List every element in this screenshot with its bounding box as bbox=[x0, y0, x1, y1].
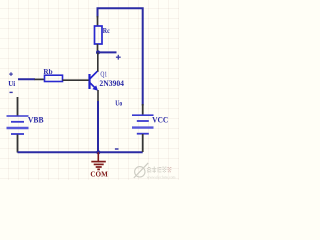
svg-text:COM: COM bbox=[90, 170, 107, 179]
resistor Rc bbox=[95, 26, 103, 44]
label: + of Ui source bbox=[9, 72, 13, 76]
wire: bottom rail bbox=[18, 151, 143, 153]
pin Rc bottom lead bbox=[97, 44, 99, 53]
watermark CJK text (simulated glyph blocks) bbox=[147, 167, 167, 173]
battery VBB bbox=[7, 116, 29, 134]
label: - polarity of Uo bbox=[115, 148, 119, 150]
pin: Rb right lead / wire to Q1 base bbox=[63, 79, 89, 81]
node: emitter/ground junction dot bbox=[96, 150, 100, 154]
pin: Rb left lead bbox=[35, 78, 46, 80]
watermark logo circle bbox=[134, 163, 148, 178]
ground COM power symbol bbox=[91, 152, 106, 169]
pin: VCC - bottom lead bbox=[142, 134, 144, 152]
battery VCC bbox=[132, 115, 154, 134]
pin: VBB + top lead bbox=[17, 97, 19, 116]
svg-text:VCC: VCC bbox=[152, 115, 168, 125]
svg-text:Uo: Uo bbox=[115, 99, 122, 108]
svg-text:Rc: Rc bbox=[103, 27, 110, 35]
node: collector junction dot bbox=[96, 50, 100, 54]
pin: VCC + top lead bbox=[142, 104, 144, 115]
svg-text:Rb: Rb bbox=[43, 68, 52, 76]
pin Rc top lead bbox=[97, 16, 99, 26]
pin: VBB - bottom lead bbox=[17, 135, 19, 153]
pin: Q1 emitter lead bbox=[97, 90, 99, 102]
label: + polarity of Uo bbox=[116, 55, 121, 60]
svg-text:www.elecfans.com: www.elecfans.com bbox=[147, 176, 176, 180]
transistor Q1 2N3904 bbox=[90, 71, 99, 91]
wire: emitter down to bottom rail bbox=[97, 101, 99, 152]
resistor Rb bbox=[45, 75, 63, 81]
svg-text:2N3904: 2N3904 bbox=[99, 79, 124, 88]
svg-text:Ui: Ui bbox=[8, 79, 15, 88]
wire: input from Ui to Rb bbox=[18, 78, 35, 80]
wire: top rail from Rc top up, across, and down right side to VCC + bbox=[98, 8, 143, 105]
wire: collector output stub (to Uo +) bbox=[97, 51, 117, 53]
pin: Q1 collector lead bbox=[97, 53, 99, 72]
svg-text:VBB: VBB bbox=[28, 115, 44, 125]
label: - of Ui source bbox=[10, 91, 13, 93]
svg-text:Q1: Q1 bbox=[100, 70, 107, 79]
